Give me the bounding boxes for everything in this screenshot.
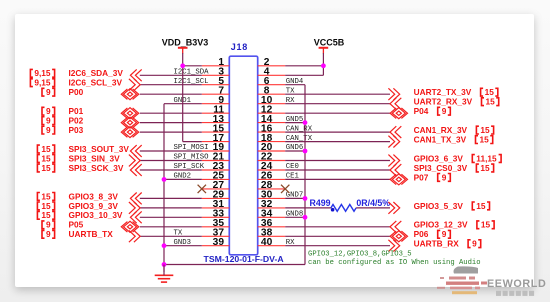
wire VDD_B3V3 vertical bus to pins 1 and 17 [182, 53, 184, 142]
no-connect X pin 28 [281, 185, 289, 193]
EEWORLD chinese caption (approximated) [496, 291, 534, 296]
off-page connector CAN1_TX_3V (out) [393, 136, 399, 148]
off-page connector GPIO3_6_3V (out) [393, 155, 399, 167]
svg-text:TSM-120-01-F-DV-A: TSM-120-01-F-DV-A [204, 254, 285, 264]
svg-text:VDD_B3V3: VDD_B3V3 [162, 38, 209, 48]
pin stubs (left, odd pins 1-39) [202, 65, 230, 67]
wire GND8 pin 34 [285, 216, 305, 218]
off-page connector I2C6_SDA_3V (in) [130, 69, 136, 81]
svg-text:9: 9 [46, 125, 51, 135]
page ref [15] for GPIO3_8_3V [37, 193, 40, 201]
junction VDD_B3V3 / pin 1 [180, 63, 185, 68]
svg-text:15: 15 [41, 144, 51, 154]
svg-text:GPIO3_5_3V: GPIO3_5_3V [414, 201, 464, 211]
wire pin 16 to CAN1_RX_3V [285, 131, 390, 133]
off-page connector P00 (bidi) [124, 89, 137, 100]
svg-text:15: 15 [480, 163, 490, 173]
page ref [9] for P00 [42, 88, 45, 96]
page ref [15] for CAN1_TX_3V [476, 136, 479, 144]
wire pin 22 to GPIO3_6_3V [285, 160, 390, 162]
page ref [15] for GPIO3_12_3V [477, 221, 480, 229]
svg-text:SPI3_SIN_3V: SPI3_SIN_3V [69, 153, 121, 163]
wire GND1 pin 9 [164, 103, 202, 105]
wire P05 to pin 35 [140, 226, 202, 228]
off-page connector GPIO3_9_3V (out) [134, 202, 140, 214]
wire GPIO3_10_3V to pin 33 [140, 216, 202, 218]
svg-text:15: 15 [486, 97, 496, 107]
junction GND bus pin 20 [303, 149, 308, 154]
svg-text:0R/4/5%: 0R/4/5% [356, 198, 390, 208]
page ref [15] for SPI3_SOUT_3V [37, 145, 40, 153]
svg-text:UART2_RX_3V: UART2_RX_3V [414, 97, 473, 107]
page ref [15] for CAN1_RX_3V [476, 126, 479, 134]
svg-text:GPIO3_10_3V: GPIO3_10_3V [69, 210, 123, 220]
svg-text:GPIO3_8_3V: GPIO3_8_3V [69, 191, 119, 201]
wire pin 40 to UARTB_RX [285, 245, 390, 247]
wire GND3 pin 39 [164, 245, 202, 247]
wire pin 12 to P04 [285, 112, 390, 114]
wire resistor R499 to GPIO3_5_3V [356, 207, 390, 209]
svg-text:UARTB_RX: UARTB_RX [414, 239, 460, 249]
page ref [9,15] for I2C6_SCL_3V [30, 79, 33, 87]
left GND bus (pins 9,25,39 to ground) [163, 104, 165, 272]
svg-text:P07: P07 [414, 172, 429, 182]
off-page connector SPI3_SIN_3V (out) [134, 155, 140, 167]
svg-text:R499: R499 [310, 198, 331, 208]
off-page connector GPIO3_10_3V (in) [130, 211, 136, 223]
wire pin 38 to P06 [285, 235, 390, 237]
svg-text:P02: P02 [69, 116, 84, 126]
page ref [15] for SPI3_SIN_3V [37, 155, 40, 163]
off-page connector P07 (bidi) [392, 174, 405, 185]
wire P02 to pin 13 [140, 122, 202, 124]
page ref [9] for P05 [42, 221, 45, 229]
wire SPI3_SCK_3V to pin 23 [140, 169, 202, 171]
svg-text:CAN1_TX_3V: CAN1_TX_3V [414, 135, 467, 145]
page ref [9] for P07 [438, 174, 441, 182]
wire VCC5B to pin 4 [285, 74, 323, 76]
page ref [9] for P02 [42, 117, 45, 125]
svg-text:15: 15 [481, 220, 491, 230]
svg-text:40: 40 [261, 237, 273, 248]
off-page connector P04 (bidi) [392, 108, 405, 119]
wire P01 to pin 11 [140, 112, 202, 114]
wire GND2 pin 25 [164, 178, 202, 180]
page ref [9,15] for I2C6_SDA_3V [30, 69, 33, 77]
wire pin 32 to resistor R499 [285, 207, 331, 209]
ground symbol [155, 274, 174, 276]
junction GND bottom tie [162, 262, 167, 267]
svg-text:9: 9 [46, 229, 51, 239]
wire GND5 pin 14 [285, 122, 305, 124]
page ref [11,15] for GPIO3_6_3V [472, 155, 475, 163]
svg-text:9: 9 [442, 172, 447, 182]
page ref [9] for UARTB_RX [468, 240, 471, 248]
off-page connector I2C6_SCL_3V (out) [134, 79, 140, 91]
svg-text:15: 15 [41, 163, 51, 173]
svg-text:15: 15 [41, 210, 51, 220]
page ref [15] for GPIO3_5_3V [472, 202, 475, 210]
svg-text:VCC5B: VCC5B [314, 38, 345, 48]
svg-text:9: 9 [442, 106, 447, 116]
off-page connector P01 (bidi) [124, 108, 137, 119]
junction GND3 [162, 243, 167, 248]
wire pin 26 to P07 [285, 178, 390, 180]
off-page connector GPIO3_5_3V (out) [393, 202, 399, 214]
wire VDD_B3V3 to pin 1 [183, 65, 202, 67]
wire GND6 pin 20 [285, 150, 305, 152]
svg-text:P00: P00 [69, 87, 84, 97]
wire GND7 pin 30 [285, 197, 305, 199]
page ref [9] for P06 [438, 230, 441, 238]
wire GND4 pin 6 [285, 84, 305, 86]
page ref [9] for P03 [42, 126, 45, 134]
off-page connector SPI3_SOUT_3V (in) [130, 145, 136, 157]
off-page connector SPI3_CS0_3V (in) [390, 164, 396, 176]
off-page connector UARTB_RX (out) [393, 240, 399, 252]
svg-text:GPIO3_6_3V: GPIO3_6_3V [414, 153, 464, 163]
wire VDD_B3V3 to pin 17 [183, 141, 202, 143]
svg-text:I2C6_SCL_3V: I2C6_SCL_3V [69, 78, 123, 88]
svg-text:P05: P05 [69, 220, 84, 230]
off-page connector P03 (bidi) [124, 127, 137, 138]
off-page connector GPIO3_12_3V (in) [390, 221, 396, 233]
svg-text:EEWORLD: EEWORLD [487, 278, 546, 290]
wire pin 24 to SPI3_CS0_3V [285, 169, 390, 171]
wire P00 to pin 7 [140, 93, 202, 95]
page ref [15] for GPIO3_10_3V [37, 211, 40, 219]
svg-text:15: 15 [480, 125, 490, 135]
resistor R499 0R/4/5% [331, 205, 356, 212]
wire VCC5B vertical bus [322, 53, 324, 75]
off-page connector UART2_RX_3V (in) [390, 98, 396, 110]
off-page connector UART2_TX_3V (out) [393, 88, 399, 100]
svg-text:can be configured as IO When: can be configured as IO When using Audio [308, 259, 481, 267]
svg-text:GPIO3_12,GPIO3_8,GPIO3_5: GPIO3_12,GPIO3_8,GPIO3_5 [308, 251, 412, 259]
svg-text:9,15: 9,15 [34, 78, 51, 88]
no-connect X pin 27 [198, 185, 206, 193]
wire P03 to pin 15 [140, 131, 202, 133]
svg-text:UARTB_TX: UARTB_TX [69, 229, 114, 239]
wire VCC5B to pin 2 [285, 65, 323, 67]
svg-text:15: 15 [480, 135, 490, 145]
page ref [9] for P01 [42, 107, 45, 115]
svg-text:9: 9 [46, 87, 51, 97]
svg-text:J18: J18 [231, 42, 248, 52]
svg-text:11,15: 11,15 [476, 153, 497, 163]
svg-text:9: 9 [472, 239, 477, 249]
svg-text:SPI3_SOUT_3V: SPI3_SOUT_3V [69, 144, 130, 154]
wire UARTB_TX to pin 37 [140, 235, 202, 237]
off-page connector P06 (bidi) [392, 231, 405, 242]
svg-text:GPIO3_12_3V: GPIO3_12_3V [414, 220, 468, 230]
svg-text:SPI3_SCK_3V: SPI3_SCK_3V [69, 163, 124, 173]
off-page connector P02 (bidi) [124, 117, 137, 128]
off-page connector CAN1_RX_3V (in) [390, 126, 396, 138]
page ref [15] for SPI3_CS0_3V [476, 164, 479, 172]
off-page connector SPI3_SCK_3V (in) [130, 164, 136, 176]
pin stubs (right, even pins 2-40) [258, 65, 286, 67]
svg-text:P03: P03 [69, 125, 84, 135]
wire GPIO3_8_3V to pin 29 [140, 197, 202, 199]
svg-text:9: 9 [46, 116, 51, 126]
wire pin 18 to CAN1_TX_3V [285, 141, 390, 143]
junction VCC5B / pin 2 [321, 63, 326, 68]
junction GND bus pin 14 [303, 120, 308, 125]
page ref [15] for SPI3_SCK_3V [37, 164, 40, 172]
wire SPI3_SIN_3V to pin 21 [140, 160, 202, 162]
svg-text:39: 39 [213, 237, 225, 248]
right GND bus (pins 6,14,20,30,34) [304, 85, 306, 265]
svg-text:P04: P04 [414, 106, 429, 116]
svg-text:15: 15 [485, 87, 495, 97]
EEWORLD watermark logo [437, 266, 487, 294]
junction GND bus pin 30 [303, 196, 308, 201]
off-page connector P05 (bidi) [124, 221, 137, 232]
connector J18 body (TSM-120-01-F-DV-A) [229, 56, 257, 255]
wire pin 10 to UART2_RX_3V [285, 103, 390, 105]
junction GND2 [162, 177, 167, 182]
off-page connector GPIO3_8_3V (in) [130, 193, 136, 205]
off-page connector UARTB_TX (out) [134, 230, 140, 242]
page ref [9] for P04 [438, 107, 441, 115]
wire I2C6_SCL_3V to pin 5 [140, 84, 202, 86]
svg-text:15: 15 [41, 153, 51, 163]
bottom GND tie wire [164, 264, 305, 266]
page ref [15] for GPIO3_9_3V [37, 202, 40, 210]
wire SPI3_SOUT_3V to pin 19 [140, 150, 202, 152]
page ref [9] for UARTB_TX [42, 230, 45, 238]
junction GND bus pin 34 [303, 215, 308, 220]
svg-text:CAN1_RX_3V: CAN1_RX_3V [414, 125, 468, 135]
svg-text:9: 9 [46, 220, 51, 230]
svg-text:15: 15 [41, 191, 51, 201]
page ref [15] for UART2_TX_3V [481, 88, 484, 96]
svg-text:15: 15 [476, 201, 486, 211]
page ref [15] for UART2_RX_3V [482, 98, 485, 106]
wire pin 36 to GPIO3_12_3V [285, 226, 390, 228]
wire pin 8 to UART2_TX_3V [285, 93, 390, 95]
wire GPIO3_9_3V to pin 31 [140, 207, 202, 209]
svg-text:UART2_TX_3V: UART2_TX_3V [414, 87, 472, 97]
wire I2C6_SDA_3V to pin 3 [140, 74, 202, 76]
